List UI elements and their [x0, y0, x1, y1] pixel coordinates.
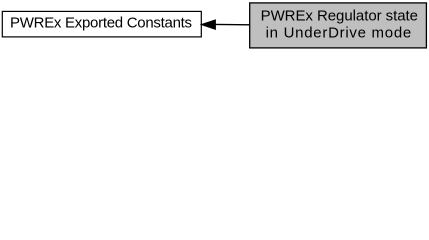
svg-text:PWREx Exported Constants: PWREx Exported Constants	[10, 14, 192, 31]
svg-text:PWREx Regulator state: PWREx Regulator state	[261, 7, 418, 24]
svg-text:in UnderDrive mode: in UnderDrive mode	[266, 25, 412, 42]
